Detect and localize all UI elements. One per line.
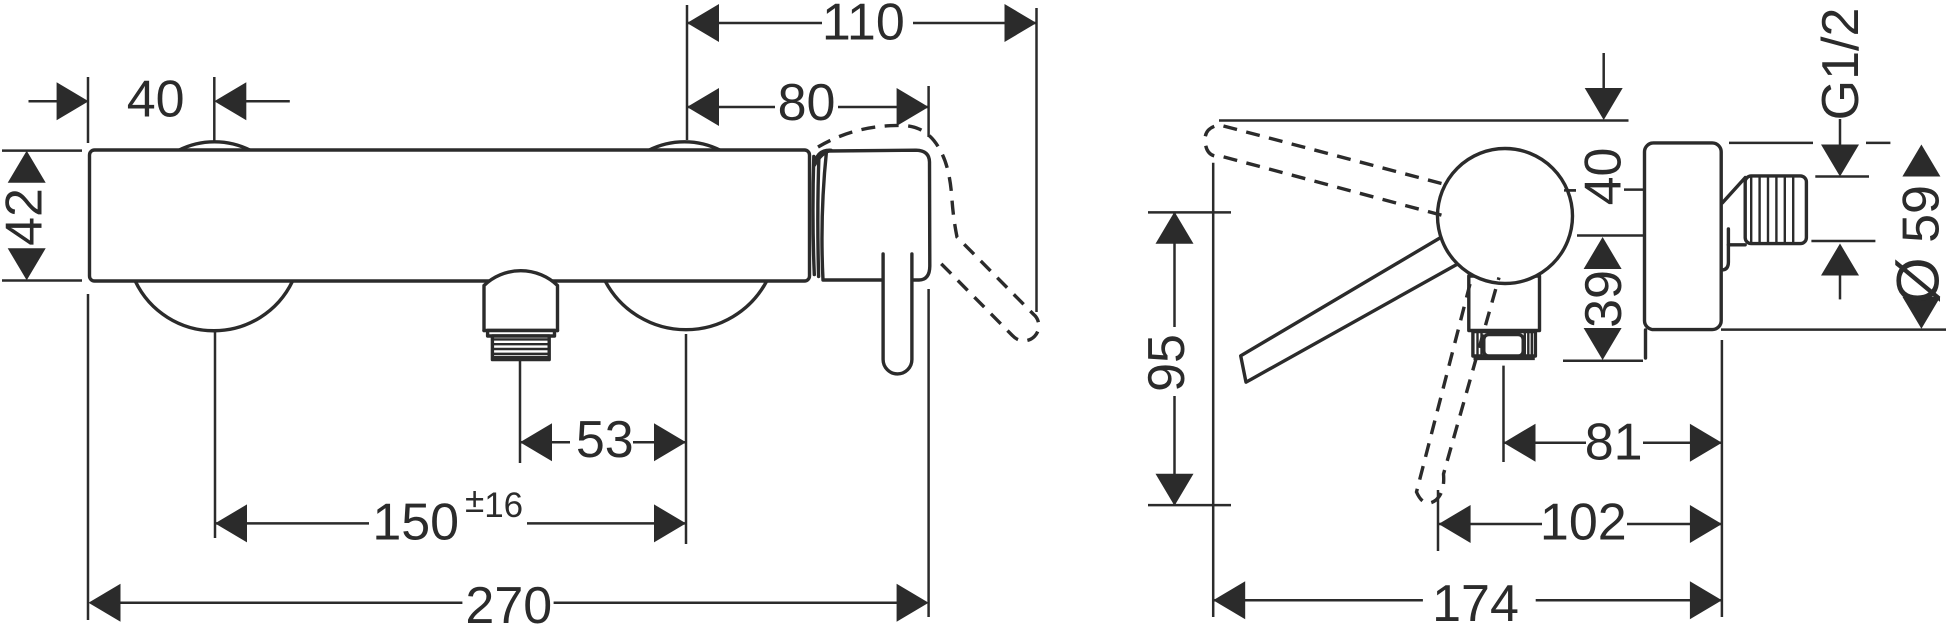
dimension 174 left arrow [1213,581,1245,619]
wall plate [1645,143,1722,330]
outlet nipple bottom edge [493,356,549,360]
dimension 95 line bottom segment [1173,396,1176,505]
dimension D59 bottom extension line [1721,328,1946,331]
nipple hatch right 3 [1531,333,1533,355]
dimension 42 arrow down [8,248,46,280]
dimension 270 right extension line [927,289,930,617]
dimension 42 extension line top [2,149,82,152]
escutcheon arc top-left [178,142,251,151]
dimension 40 right arrow [214,82,246,120]
thread crest 5 [1784,178,1786,243]
check valve hook horizontal [1728,243,1745,246]
nipple bottom edge (side view) [1474,356,1535,360]
dimension D59 arrow down [1902,297,1940,329]
svg-text:270: 270 [465,577,552,625]
handle block top-left nub [815,150,832,165]
dimension 80 right arrow [897,88,929,126]
outlet threaded nipple [492,336,549,360]
dimension 150 left arrow [215,504,247,542]
outlet thread ridge 4 [492,353,549,355]
dimension 42 arrow up [8,151,46,183]
dimension 40 tick at plate [1624,188,1643,191]
dimension D59 top tick right [1866,142,1890,145]
dimension 102 left arrow [1439,505,1471,543]
svg-text:Ø 59: Ø 59 [1885,185,1946,304]
thread crest 2 [1758,178,1760,243]
lever dashed outline (up position, side view) [1205,125,1442,215]
nipple hatch left 2 [1480,333,1482,355]
dimension 39 arrow down [1584,328,1622,360]
dimension 95 arrow up [1156,212,1194,244]
adapter ring right line [818,155,819,277]
dimension 110 left extension line [686,5,689,140]
dimension 40 left tail [29,100,58,103]
svg-text:G1/2: G1/2 [1812,8,1870,121]
dimension D59 arrow up [1902,145,1940,177]
dimension 102 line left segment [1439,523,1542,526]
escutcheon arc top-right [648,142,721,151]
svg-text:40: 40 [1575,148,1633,206]
thread crest 1 [1750,178,1752,243]
dimension 174 line right segment [1536,599,1722,602]
dimension 40/39 boundary line [1577,234,1680,237]
nipple hatch right 1 [1524,333,1526,355]
dimension 80 line right segment [838,106,929,109]
dimension 270 line right segment [554,602,897,605]
dimension 81 line right segment [1643,441,1722,444]
lever bar (side view, solid position) [1241,232,1463,382]
dimension 40 left arrow [57,82,89,120]
svg-text:110: 110 [822,0,905,51]
outlet dome [484,271,558,331]
dimension 80 right extension line [927,86,930,137]
dimension 81 right arrow [1690,424,1722,462]
escutcheon arc bottom-right [605,281,766,329]
nipple hatch left 1 [1476,333,1478,355]
adapter ring left line [813,157,814,275]
nipple outer (side view) [1473,332,1536,357]
valve body below hub [1469,276,1540,331]
dimension 53 left arrow [520,423,552,461]
dimension 110 right arrow [1005,4,1037,42]
dimension 110 line right segment [913,22,1037,25]
thread crest 4 [1775,178,1777,243]
dimension 95 bottom extension line [1148,504,1231,507]
dimension 150 line left segment [215,522,369,525]
dimension 270 left arrow [89,584,121,622]
dimension D59 top tick left [1729,142,1813,145]
dimension 53 right arrow [654,423,686,461]
dimension 270 left extension line [87,294,90,620]
outlet flange [488,331,555,337]
dimension G1/2 arrow down [1821,145,1859,177]
svg-text:102: 102 [1540,494,1627,552]
dimension 174 left extension line [1212,163,1215,617]
dimension 40 left extension line [87,77,90,143]
dimension 150 left extension line [214,332,217,538]
outlet thread ridge 3 [492,348,549,350]
dimension 102 left extension line [1437,490,1440,551]
dimension 102 right arrow [1690,505,1722,543]
connector neck slant [1722,178,1745,203]
nipple hatch right 2 [1527,333,1529,355]
dimension 40 right tail [246,100,290,103]
hub circle [1438,149,1573,284]
dimension 40 right extension line [213,77,216,141]
escutcheon arc bottom-left [135,281,292,330]
thread body G1/2 [1745,176,1806,244]
dimension 270 line left segment [119,602,462,605]
dimension 81 left arrow [1504,424,1536,462]
mixer body bar [90,150,810,281]
dimension 150 line right segment [527,522,686,525]
dimension 39 bottom line [1563,360,1643,363]
dimension 53 center extension line [685,334,688,544]
dimension 80 left arrow [687,88,719,126]
wall plate rear edge stub [1644,330,1647,358]
svg-text:53: 53 [576,411,634,469]
dimension 174 right extension line [1721,340,1724,617]
svg-text:80: 80 [778,74,836,132]
outlet thread ridge 2 [492,343,549,345]
outlet flange step line [484,329,558,332]
top reference line [1219,119,1629,122]
dimension 81 left extension line [1502,366,1505,462]
svg-text:150: 150 [372,493,459,551]
dimension G1/2 bottom tail [1839,276,1842,300]
dimension G1/2 leader [1839,119,1842,145]
svg-text:174: 174 [1432,575,1519,625]
dimension 81 line left segment [1504,441,1587,444]
dimension 53 line left segment [520,441,570,444]
dimension G1/2 arrow up [1821,244,1859,276]
dimension 110 left arrow [687,4,719,42]
outlet thread ridge 1 [492,338,549,340]
dimension 95 arrow down [1156,474,1194,506]
svg-text:39: 39 [1575,270,1633,328]
dimension 80 line left segment [687,106,775,109]
thread crest 3 [1767,178,1769,243]
dimension G1/2 bottom tick [1811,240,1875,243]
svg-text:81: 81 [1585,414,1643,472]
thread crest 6 [1792,178,1794,243]
svg-text:40: 40 [127,71,185,129]
dimension 40 arrow up [1584,237,1622,269]
dimension 42 extension line bottom [2,279,82,282]
handle block [822,150,930,280]
dimension 95 line top segment [1173,212,1176,327]
dimension 95 top extension line [1148,211,1231,214]
lever dashed outline (up position) [818,125,1039,340]
dimension 110 line left segment [687,22,822,25]
dimension 150 right arrow [654,504,686,542]
dimension 270 right arrow [897,584,929,622]
dimension 174 right arrow [1690,581,1722,619]
dimension 102 line right segment [1627,523,1722,526]
dimension 40 tick at hub [1564,189,1576,192]
top reference arrow down [1585,88,1623,120]
top reference arrow tail [1602,53,1605,88]
dimension 53 left extension line [519,361,522,463]
svg-text:±16: ±16 [465,481,523,525]
check valve hook vertical [1722,229,1729,270]
dimension G1/2 top tick [1815,175,1869,178]
dimension 110 right extension line [1035,8,1038,312]
nipple hex flat [1484,335,1523,357]
svg-text:95: 95 [1138,334,1196,392]
lever dashed outline (down position, side view) [1417,278,1500,504]
svg-text:42: 42 [0,188,54,246]
dimension 174 line left segment [1213,599,1423,602]
lever handle bar (down position) [883,254,912,374]
hub tick right [1564,189,1576,192]
dimension 53 line right segment [633,441,686,444]
